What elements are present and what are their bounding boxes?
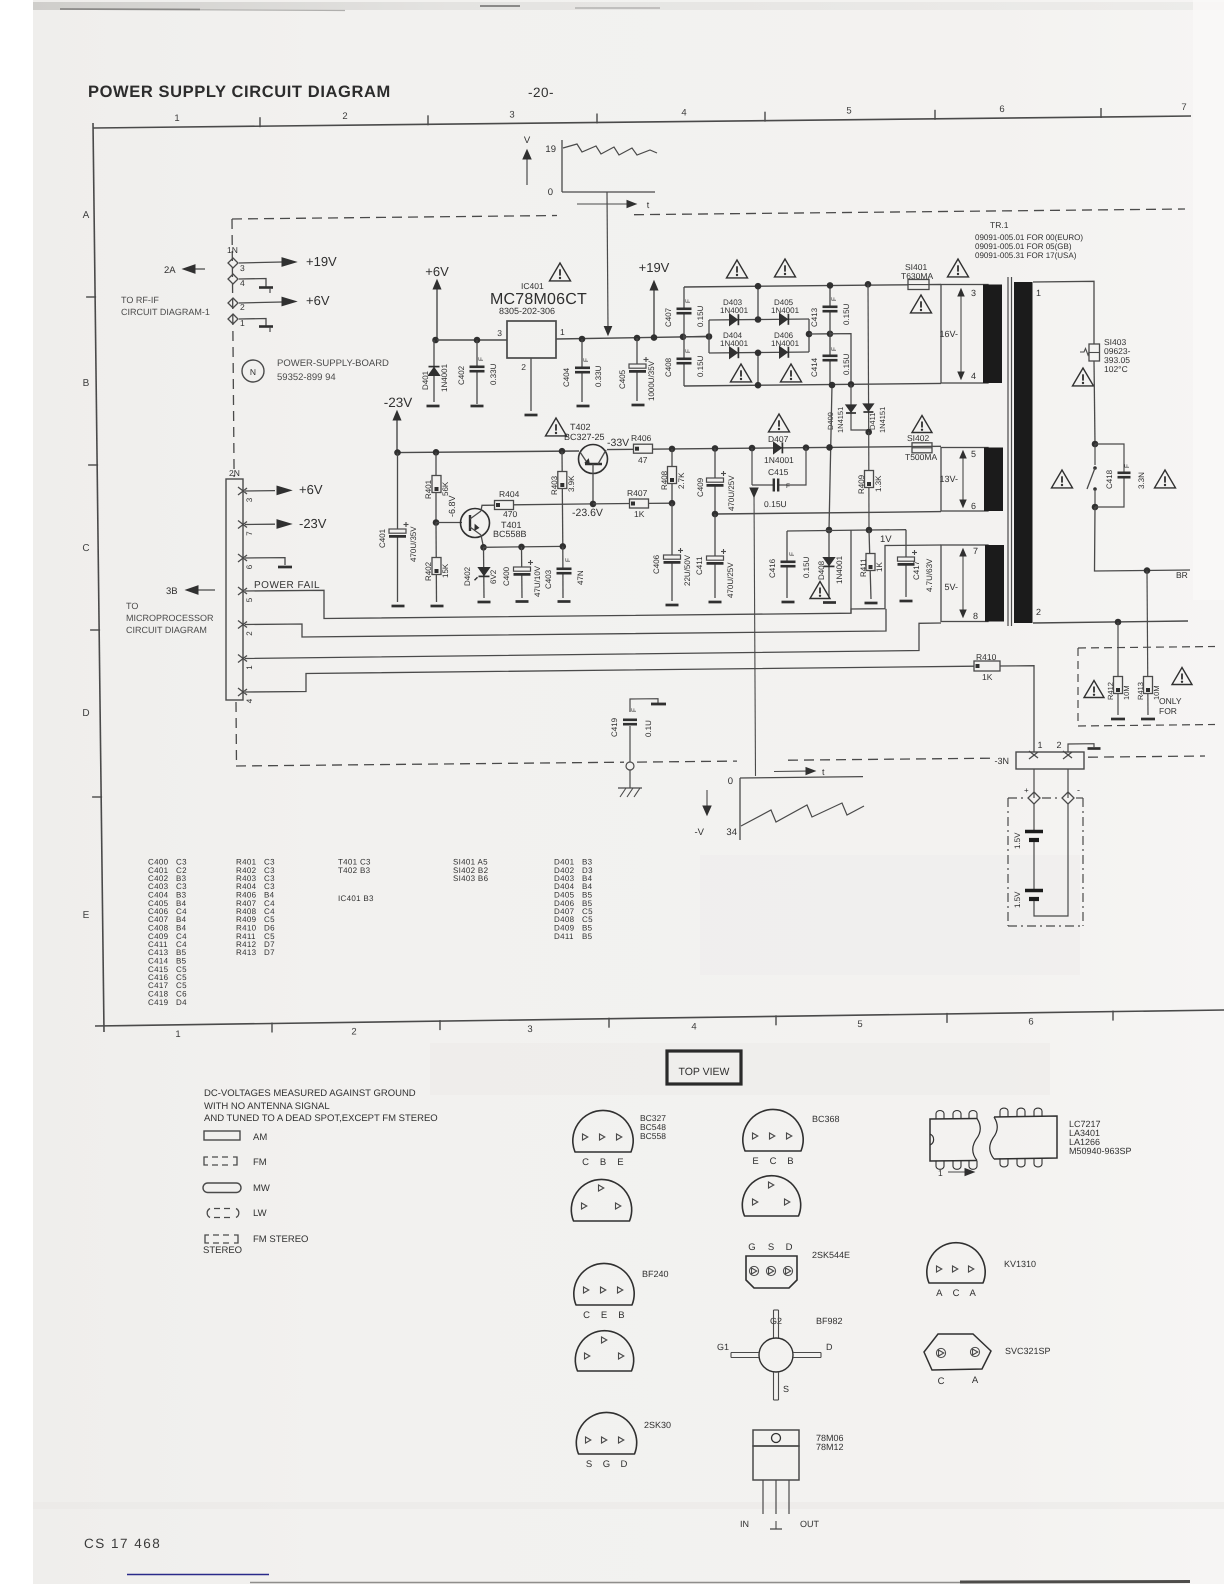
svg-text:D408: D408 bbox=[817, 560, 826, 580]
warning triangle SI401 bbox=[911, 295, 932, 313]
capacitor C400 47U/10V bbox=[521, 547, 524, 598]
svg-text:2: 2 bbox=[1036, 607, 1041, 617]
wire primary pin2 rail bbox=[1033, 621, 1188, 623]
svg-text:TOP VIEW: TOP VIEW bbox=[679, 1066, 730, 1078]
svg-text:D: D bbox=[82, 708, 89, 719]
wire 13V rail bbox=[607, 446, 941, 449]
svg-text:D: D bbox=[826, 1342, 833, 1352]
warning triangle right of SI401 bbox=[948, 259, 969, 277]
wire -V measure line bbox=[754, 492, 756, 776]
svg-text:1: 1 bbox=[1037, 740, 1042, 750]
svg-text:MW: MW bbox=[253, 1183, 270, 1194]
transformer core bbox=[1007, 277, 1009, 626]
wire bridge lower row bbox=[709, 352, 809, 353]
connector 2N pin 5 bbox=[238, 587, 247, 594]
ground C403 bbox=[558, 600, 571, 603]
wire bridge mid link bbox=[809, 333, 830, 335]
svg-text:5: 5 bbox=[857, 1019, 862, 1030]
svg-text:E: E bbox=[752, 1156, 758, 1167]
svg-text:1N4001: 1N4001 bbox=[771, 339, 800, 348]
svg-text:BF240: BF240 bbox=[642, 1269, 669, 1279]
diode D408 1N4001 bbox=[828, 530, 830, 598]
svg-text:R401: R401 bbox=[424, 479, 433, 499]
svg-text:BF982: BF982 bbox=[816, 1316, 843, 1326]
capacitor C411 470U/25V bbox=[714, 514, 716, 598]
svg-text:CIRCUIT DIAGRAM: CIRCUIT DIAGRAM bbox=[126, 625, 207, 635]
legend LW bbox=[207, 1209, 210, 1218]
wire IC401 out rail bbox=[556, 337, 708, 340]
warning triangle USA box right bbox=[1172, 668, 1192, 685]
wire bridge minus column bbox=[829, 385, 832, 530]
svg-text:C406: C406 bbox=[652, 554, 661, 574]
node dot C411 top bbox=[712, 511, 719, 518]
svg-text:SI403 B6: SI403 B6 bbox=[453, 874, 489, 883]
svg-text:M50940-963SP: M50940-963SP bbox=[1069, 1146, 1132, 1156]
svg-text:TR.1: TR.1 bbox=[990, 220, 1009, 230]
svg-text:R412: R412 bbox=[1106, 682, 1115, 700]
svg-text:470U/35V: 470U/35V bbox=[409, 526, 418, 562]
ground C401 bbox=[392, 605, 405, 608]
svg-text:15K: 15K bbox=[441, 563, 450, 578]
svg-text:-3N: -3N bbox=[994, 756, 1009, 766]
capacitor C419 0.1U bbox=[630, 699, 658, 712]
svg-text:8305-202-306: 8305-202-306 bbox=[499, 306, 555, 316]
resistor R404 470 bbox=[495, 501, 514, 510]
wire 2N pin3 +6V bbox=[245, 490, 275, 492]
battery terminal + diamond bbox=[1028, 792, 1040, 804]
svg-text:1.5V: 1.5V bbox=[1013, 832, 1022, 849]
svg-text:-23V: -23V bbox=[384, 395, 413, 410]
wire 1N pin 4 stub bbox=[239, 279, 266, 288]
capacitor C404 0.33U bbox=[581, 339, 583, 402]
svg-text:3: 3 bbox=[509, 109, 514, 120]
diode D411 1N4151 bbox=[867, 284, 870, 432]
svg-text:C: C bbox=[582, 1157, 589, 1168]
svg-text:3.3N: 3.3N bbox=[1137, 472, 1146, 489]
wire 3N pin2 to battery bbox=[1067, 769, 1069, 798]
node dot C402 bbox=[474, 337, 481, 344]
board name circle N bbox=[242, 360, 264, 382]
svg-text:1: 1 bbox=[175, 1029, 180, 1040]
svg-text:R409: R409 bbox=[857, 474, 866, 494]
warning triangle left of C418 bbox=[1052, 470, 1073, 488]
diode D405 1N4001 bbox=[780, 314, 788, 325]
wire +19V arrow bbox=[653, 289, 655, 338]
ground C416 bbox=[782, 601, 795, 604]
svg-text:-20-: -20- bbox=[528, 85, 554, 100]
svg-text:POWER SUPPLY CIRCUIT DIAGRAM: POWER SUPPLY CIRCUIT DIAGRAM bbox=[88, 83, 391, 101]
node dot D409 D411 join bbox=[865, 429, 872, 436]
node dot C409 top bbox=[712, 445, 719, 452]
svg-text:2A: 2A bbox=[164, 265, 176, 276]
svg-text:19: 19 bbox=[545, 144, 556, 155]
svg-text:3B: 3B bbox=[166, 586, 178, 597]
svg-text:6: 6 bbox=[1028, 1017, 1033, 1028]
svg-text:13V-: 13V- bbox=[939, 474, 958, 484]
svg-text:2N: 2N bbox=[229, 468, 240, 478]
diode D404 1N4001 bbox=[730, 347, 738, 358]
svg-text:+: + bbox=[1024, 786, 1029, 795]
transistor T401 BC558B bbox=[436, 522, 462, 524]
svg-text:1: 1 bbox=[938, 1168, 943, 1178]
svg-text:1K: 1K bbox=[875, 562, 884, 572]
svg-text:1N4151: 1N4151 bbox=[836, 407, 845, 433]
chassis ground C419 bbox=[629, 770, 631, 788]
node dot D401 bbox=[432, 337, 439, 344]
svg-text:D4: D4 bbox=[176, 998, 187, 1007]
wire T401 emitter up bbox=[481, 505, 495, 511]
svg-text:C413: C413 bbox=[810, 307, 819, 327]
svg-text:FM: FM bbox=[253, 1157, 267, 1168]
svg-text:STEREO: STEREO bbox=[203, 1245, 242, 1256]
svg-text:F: F bbox=[1124, 464, 1131, 468]
svg-text:D411: D411 bbox=[554, 932, 574, 941]
package BC327 BC548 BC558 bbox=[573, 1110, 633, 1152]
package 78M06 78M12 bbox=[753, 1430, 799, 1446]
svg-text:+6V: +6V bbox=[306, 293, 330, 308]
svg-text:FM STEREO: FM STEREO bbox=[253, 1234, 308, 1245]
warning triangle IC401 bbox=[550, 263, 571, 281]
wire bridge left node bbox=[683, 336, 709, 338]
svg-text:G: G bbox=[748, 1242, 755, 1253]
capacitor C414 0.15U bbox=[829, 334, 831, 385]
legend AM bbox=[204, 1131, 240, 1140]
svg-text:5V-: 5V- bbox=[944, 582, 958, 592]
legend FM STEREO bbox=[205, 1235, 209, 1243]
svg-text:KV1310: KV1310 bbox=[1004, 1259, 1036, 1269]
ground C400 bbox=[516, 600, 529, 603]
wire W1 power fail to pin7 bbox=[245, 545, 941, 619]
svg-text:-23.6V: -23.6V bbox=[572, 507, 603, 519]
IC401 regulator MC78M06CT bbox=[507, 321, 556, 358]
connector 2N pin 4 bbox=[238, 688, 247, 695]
connector 2N pin 7 bbox=[238, 521, 247, 528]
capacitor C403 47N bbox=[562, 546, 564, 598]
svg-text:470: 470 bbox=[503, 509, 517, 519]
svg-text:102°C: 102°C bbox=[1104, 364, 1128, 374]
svg-text:1: 1 bbox=[1036, 288, 1041, 298]
svg-text:D: D bbox=[786, 1242, 793, 1253]
legend MW bbox=[203, 1183, 241, 1193]
svg-text:BR: BR bbox=[1176, 570, 1188, 580]
capacitor C418 3.3N bbox=[1095, 444, 1124, 507]
svg-text:S: S bbox=[783, 1384, 789, 1394]
connector 2N pin 3 bbox=[238, 487, 247, 494]
wire 1V row bbox=[787, 530, 829, 533]
wire 3N pin2 stub bbox=[1068, 744, 1094, 752]
capacitor C409 470U/25V bbox=[714, 448, 716, 514]
transformer 5V winding bbox=[941, 545, 988, 622]
node dot top rail D411 bbox=[865, 281, 872, 288]
wire W2 to transformer bbox=[245, 609, 886, 637]
svg-text:F: F bbox=[565, 558, 572, 562]
capacitor C401 470U/35V bbox=[397, 453, 399, 602]
bottom edge shadow bbox=[250, 1582, 960, 1584]
wire - waveform pointer to +19V rail bbox=[607, 192, 608, 328]
diode D401 1N4001 bbox=[433, 340, 435, 402]
svg-text:59352-899 94: 59352-899 94 bbox=[277, 372, 336, 383]
wire bridge right column bbox=[808, 319, 810, 352]
svg-text:470U/25V: 470U/25V bbox=[726, 562, 735, 598]
ground C406 bbox=[666, 604, 679, 607]
node circle on dashed border bbox=[626, 762, 634, 770]
svg-text:F: F bbox=[478, 357, 485, 361]
svg-text:-33V: -33V bbox=[607, 437, 629, 449]
svg-text:78M12: 78M12 bbox=[816, 1442, 844, 1452]
ground R412 bbox=[1111, 718, 1125, 721]
svg-text:1.3K: 1.3K bbox=[874, 475, 883, 492]
svg-text:5: 5 bbox=[245, 597, 254, 602]
svg-text:R406: R406 bbox=[631, 433, 652, 443]
svg-text:C409: C409 bbox=[696, 477, 705, 497]
wire IC401 pin2 down bbox=[530, 358, 532, 411]
svg-text:D402: D402 bbox=[463, 566, 472, 586]
svg-text:R411: R411 bbox=[859, 558, 868, 577]
svg-text:S: S bbox=[586, 1459, 592, 1470]
svg-text:+6V: +6V bbox=[425, 264, 449, 279]
svg-text:2SK544E: 2SK544E bbox=[812, 1250, 850, 1260]
svg-text:AM: AM bbox=[253, 1132, 267, 1143]
svg-text:-: - bbox=[1077, 785, 1080, 795]
ground C405 bbox=[632, 404, 645, 407]
svg-text:1000U/35V: 1000U/35V bbox=[647, 360, 656, 401]
svg-text:R410: R410 bbox=[976, 652, 997, 662]
svg-text:TO: TO bbox=[126, 601, 138, 611]
capacitor C416 0.15U bbox=[786, 531, 788, 598]
svg-text:C415: C415 bbox=[768, 467, 789, 477]
svg-text:1: 1 bbox=[245, 665, 254, 670]
svg-text:A: A bbox=[970, 1288, 977, 1299]
TOP VIEW box bbox=[667, 1051, 741, 1084]
svg-text:-23V: -23V bbox=[299, 516, 327, 531]
svg-text:C414: C414 bbox=[810, 357, 819, 377]
ground D408 bbox=[823, 601, 836, 604]
svg-text:R408: R408 bbox=[660, 470, 669, 490]
svg-text:0.1U: 0.1U bbox=[644, 720, 653, 737]
battery terminal - diamond bbox=[1062, 792, 1074, 804]
svg-text:4.7U/63V: 4.7U/63V bbox=[925, 558, 934, 592]
svg-text:0.15U: 0.15U bbox=[842, 353, 851, 375]
svg-text:1N4001: 1N4001 bbox=[764, 455, 794, 465]
wire 2N pin6 stub bbox=[245, 558, 285, 565]
ground D401 bbox=[427, 405, 440, 408]
svg-text:R413: R413 bbox=[1136, 682, 1145, 700]
ground C402 bbox=[471, 405, 484, 408]
svg-text:47U/10V: 47U/10V bbox=[533, 565, 542, 597]
svg-text:A: A bbox=[83, 210, 90, 221]
svg-text:C404: C404 bbox=[562, 367, 571, 387]
svg-text:C416: C416 bbox=[768, 558, 777, 578]
svg-text:09091-005.31 FOR 17(USA): 09091-005.31 FOR 17(USA) bbox=[975, 251, 1077, 260]
warning triangle above bridge 1 bbox=[727, 260, 748, 278]
svg-text:B: B bbox=[83, 378, 90, 389]
svg-text:F: F bbox=[786, 483, 790, 490]
svg-text:0.15U: 0.15U bbox=[842, 303, 851, 325]
package dome row4 left bbox=[575, 1331, 633, 1371]
svg-text:2: 2 bbox=[1056, 740, 1061, 750]
svg-text:C419: C419 bbox=[610, 717, 619, 737]
svg-text:4: 4 bbox=[681, 108, 686, 119]
warning triangle SI402 bbox=[912, 416, 932, 433]
svg-text:CIRCUIT DIAGRAM-1: CIRCUIT DIAGRAM-1 bbox=[121, 307, 210, 317]
svg-text:-V: -V bbox=[695, 827, 705, 838]
svg-text:09091-005.01 FOR 00(EURO): 09091-005.01 FOR 00(EURO) bbox=[975, 233, 1083, 242]
blue pen mark bbox=[127, 1574, 269, 1576]
resistor R402 15K bbox=[435, 523, 438, 603]
resistor R403 3.9K bbox=[561, 451, 564, 546]
package BC368 bbox=[743, 1109, 803, 1151]
resistor R408 2.7K bbox=[671, 449, 673, 504]
svg-text:SI402: SI402 bbox=[907, 433, 929, 443]
svg-text:6: 6 bbox=[245, 564, 254, 569]
svg-text:C407: C407 bbox=[664, 307, 673, 327]
resistor R411 1K bbox=[869, 530, 871, 599]
svg-text:C417: C417 bbox=[912, 560, 921, 580]
connector 3N bbox=[1016, 752, 1084, 769]
svg-text:0.15U: 0.15U bbox=[764, 499, 787, 509]
battery cell 2 1.5V bbox=[1025, 889, 1043, 892]
svg-text:0.15U: 0.15U bbox=[696, 355, 705, 377]
node dot BR to R413 bbox=[1144, 567, 1151, 574]
warning triangle USA box left bbox=[1084, 681, 1104, 698]
wire bridge left column bbox=[708, 320, 710, 353]
svg-text:1N4151: 1N4151 bbox=[878, 407, 887, 433]
ground D402 bbox=[478, 601, 491, 604]
svg-text:1N4001: 1N4001 bbox=[771, 306, 800, 315]
resistor R410 1K bbox=[974, 661, 1000, 671]
warning triangle below SI403 bbox=[1073, 368, 1094, 386]
svg-text:A: A bbox=[972, 1375, 979, 1386]
svg-text:8: 8 bbox=[973, 611, 978, 621]
svg-text:0.33U: 0.33U bbox=[489, 363, 498, 385]
battery compartment box bbox=[1008, 797, 1026, 799]
svg-text:1: 1 bbox=[174, 113, 179, 124]
svg-text:C411: C411 bbox=[695, 556, 704, 575]
svg-text:1N: 1N bbox=[227, 245, 238, 255]
svg-text:3: 3 bbox=[497, 328, 502, 338]
node dot C404 bbox=[579, 336, 586, 343]
svg-text:7: 7 bbox=[245, 531, 254, 536]
svg-text:B: B bbox=[600, 1157, 606, 1168]
svg-text:E: E bbox=[83, 910, 90, 921]
svg-text:C: C bbox=[953, 1288, 960, 1299]
ground C417 bbox=[900, 600, 913, 603]
svg-text:IN: IN bbox=[740, 1519, 749, 1529]
ground C404 bbox=[577, 405, 590, 408]
svg-text:AND TUNED TO A DEAD SPOT,EXCEP: AND TUNED TO A DEAD SPOT,EXCEPT FM STERE… bbox=[204, 1113, 438, 1124]
wire W4 to R410 bbox=[245, 666, 974, 692]
resistor R401 56K bbox=[435, 452, 437, 522]
node dot C401 top bbox=[394, 449, 401, 456]
svg-text:BC558B: BC558B bbox=[493, 529, 527, 539]
node dot T401 base bbox=[433, 519, 440, 526]
svg-text:6V2: 6V2 bbox=[489, 569, 498, 584]
svg-text:10M: 10M bbox=[1122, 685, 1131, 700]
connector 2N pin 2 bbox=[238, 621, 247, 628]
svg-text:B5: B5 bbox=[582, 932, 593, 941]
svg-text:R403: R403 bbox=[550, 475, 559, 495]
svg-text:F: F bbox=[631, 708, 638, 712]
svg-text:0: 0 bbox=[728, 776, 733, 787]
switch mains selector bbox=[1094, 444, 1096, 465]
node dot R412 bbox=[1115, 619, 1122, 626]
svg-text:1K: 1K bbox=[634, 509, 645, 519]
fuse SI403 thermal bbox=[1089, 344, 1100, 361]
svg-text:+19V: +19V bbox=[639, 260, 670, 275]
connector 2N pin 6 bbox=[238, 554, 247, 561]
svg-text:2: 2 bbox=[351, 1026, 356, 1037]
svg-text:3: 3 bbox=[245, 497, 254, 502]
transistor T402 BC327-25 bbox=[579, 445, 608, 474]
svg-text:R402: R402 bbox=[424, 561, 433, 581]
svg-text:IC401 B3: IC401 B3 bbox=[338, 894, 374, 903]
svg-text:TO RF-IF: TO RF-IF bbox=[121, 295, 159, 305]
diode D406 1N4001 bbox=[780, 347, 788, 358]
node dot C405 bbox=[634, 335, 641, 342]
wire R404 to node bbox=[514, 503, 594, 506]
svg-text:T500MA: T500MA bbox=[905, 452, 937, 462]
svg-text:D: D bbox=[620, 1459, 627, 1470]
wire +6V arrow bbox=[436, 288, 438, 340]
wire zener row bbox=[484, 545, 563, 548]
resistor R409 1.3K bbox=[868, 432, 870, 530]
svg-text:A: A bbox=[936, 1288, 943, 1299]
svg-text:7: 7 bbox=[1181, 102, 1186, 113]
wire 1N pin 3 to +19V bbox=[239, 262, 282, 263]
svg-text:22U/50V: 22U/50V bbox=[683, 554, 692, 586]
svg-text:3.9K: 3.9K bbox=[567, 475, 576, 492]
svg-text:3: 3 bbox=[240, 263, 245, 273]
svg-text:POWER-SUPPLY-BOARD: POWER-SUPPLY-BOARD bbox=[277, 358, 389, 369]
svg-text:3: 3 bbox=[527, 1024, 532, 1035]
wire SI403 to switch bbox=[1094, 361, 1095, 444]
svg-text:C401: C401 bbox=[378, 528, 387, 548]
node dot R408 top bbox=[669, 446, 676, 453]
dashed box ONLY FOR USA bbox=[1078, 647, 1215, 649]
svg-text:R413: R413 bbox=[236, 948, 257, 957]
ground IC401 pin2 bbox=[525, 414, 538, 417]
svg-text:09091-005.01 FOR 05(GB): 09091-005.01 FOR 05(GB) bbox=[975, 242, 1072, 251]
ground R411 bbox=[865, 602, 878, 605]
wire W3 to pin8 bbox=[245, 623, 941, 659]
svg-text:1V: 1V bbox=[880, 534, 892, 545]
capacitor C406 22U/50V bbox=[671, 503, 673, 601]
svg-text:C405: C405 bbox=[618, 369, 627, 389]
warning triangle below bridge 1 bbox=[731, 364, 752, 382]
warning triangle above bridge 2 bbox=[775, 259, 796, 277]
svg-text:0.15U: 0.15U bbox=[802, 556, 811, 578]
svg-text:C419: C419 bbox=[148, 998, 169, 1007]
svg-text:34: 34 bbox=[726, 827, 737, 838]
svg-text:BC558: BC558 bbox=[640, 1131, 666, 1141]
wire bridge upper row bbox=[709, 319, 809, 320]
diode D409 1N4151 bbox=[851, 384, 869, 430]
wire T401 collector down bbox=[481, 535, 484, 547]
resistor R407 1K bbox=[593, 503, 630, 505]
svg-text:-6.8V: -6.8V bbox=[447, 495, 457, 517]
warning triangle below D408 bbox=[810, 582, 830, 599]
svg-text:F: F bbox=[583, 358, 590, 362]
svg-text:CS 17 468: CS 17 468 bbox=[84, 1536, 161, 1551]
wire primary pin1 bbox=[1033, 281, 1094, 344]
package BF240 bbox=[574, 1263, 634, 1305]
wire mid node to D409 bbox=[830, 334, 851, 385]
svg-text:2: 2 bbox=[342, 111, 347, 122]
capacitor C417 4.7U/63V bbox=[905, 530, 907, 553]
svg-text:1N4001: 1N4001 bbox=[720, 339, 749, 348]
svg-text:5: 5 bbox=[971, 449, 976, 459]
svg-text:WITH NO ANTENNA SIGNAL: WITH NO ANTENNA SIGNAL bbox=[204, 1101, 330, 1112]
